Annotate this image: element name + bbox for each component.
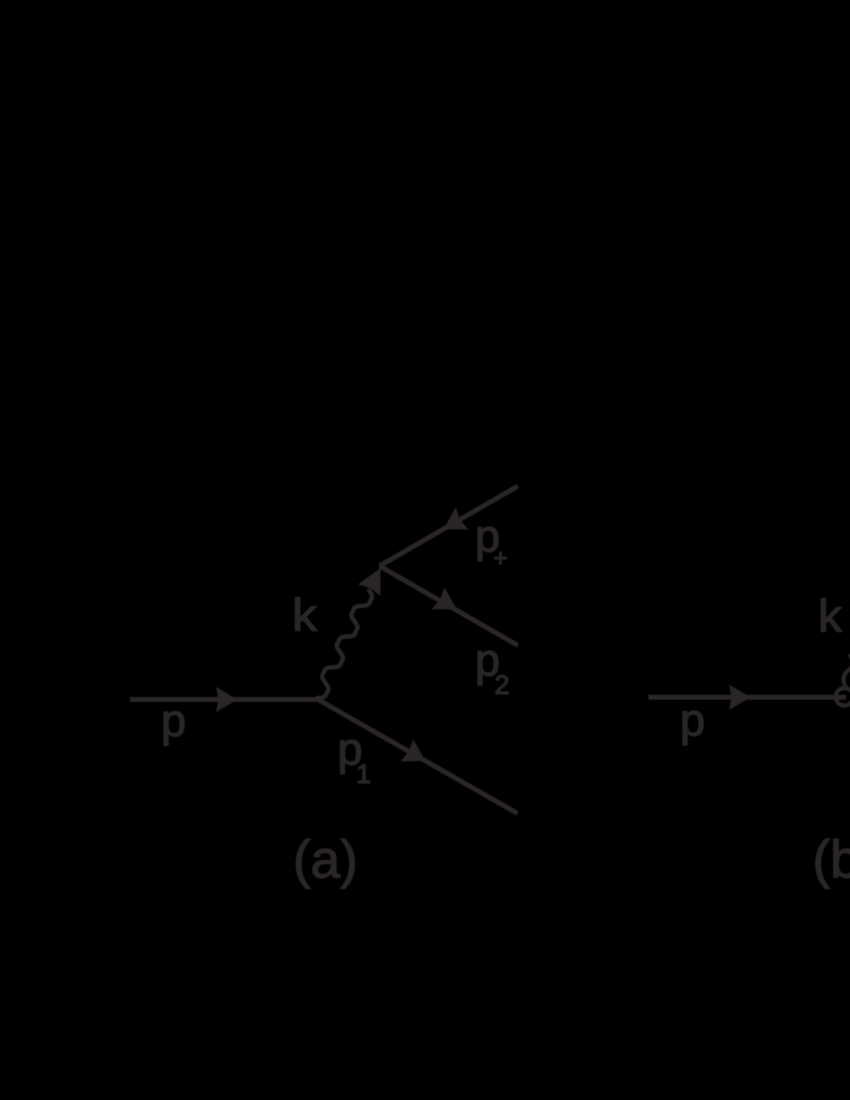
svg-text:k: k: [292, 590, 318, 641]
svg-text:1: 1: [356, 759, 371, 789]
svg-text:(b): (b): [813, 831, 850, 890]
svg-text:(a): (a): [293, 831, 358, 890]
svg-text:+: +: [494, 545, 508, 572]
svg-text:2: 2: [495, 670, 510, 700]
svg-text:k: k: [818, 591, 843, 642]
svg-text:p: p: [680, 695, 705, 746]
svg-text:p: p: [161, 695, 186, 746]
